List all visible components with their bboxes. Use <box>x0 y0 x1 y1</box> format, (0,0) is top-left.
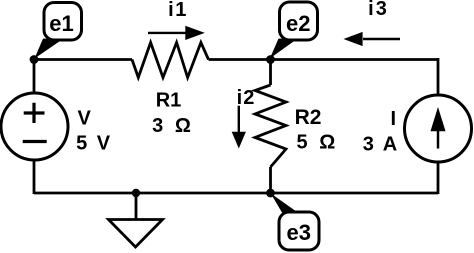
node e2 callout box <box>280 2 318 40</box>
node B dot (e2) <box>266 55 275 64</box>
arrow i1 <box>148 32 186 34</box>
node A dot (e1) <box>30 55 39 64</box>
wire left vertical top <box>33 58 36 93</box>
svg-text:V: V <box>78 107 92 129</box>
wire right vertical top <box>437 58 440 95</box>
svg-text:5 Ω: 5 Ω <box>297 132 339 154</box>
svg-text:R2: R2 <box>295 106 322 129</box>
svg-text:e3: e3 <box>286 220 310 245</box>
svg-text:I: I <box>391 108 397 130</box>
node e2 callout wedge <box>270 39 298 59</box>
svg-text:5 V: 5 V <box>76 133 112 155</box>
node e3 callout box <box>279 212 319 250</box>
arrow i3 <box>363 38 400 40</box>
svg-text:i3: i3 <box>368 0 389 20</box>
wire right vertical bottom <box>437 162 440 194</box>
voltage source V circle <box>1 93 68 160</box>
voltage source minus sign <box>23 140 47 143</box>
svg-text:e2: e2 <box>286 11 310 36</box>
wire R2 bottom lead <box>269 167 272 193</box>
current source arrow <box>437 128 440 149</box>
wire left vertical bottom <box>33 160 36 194</box>
wire bottom <box>34 192 438 195</box>
current source I circle <box>405 95 472 162</box>
resistor R2 <box>255 85 286 167</box>
node e3 callout wedge <box>271 193 299 213</box>
svg-text:i1: i1 <box>168 0 188 21</box>
svg-text:i2: i2 <box>237 87 256 109</box>
node C dot (e3) <box>266 189 275 198</box>
svg-text:e1: e1 <box>49 11 73 36</box>
wire R2 top lead <box>269 60 272 86</box>
ground <box>135 193 138 220</box>
wire top right segment <box>209 58 439 61</box>
wire top left segment <box>34 58 132 61</box>
node e1 callout wedge <box>35 39 64 59</box>
resistor R1 <box>132 43 209 78</box>
svg-text:R1: R1 <box>156 90 182 112</box>
svg-text:3 A: 3 A <box>363 134 399 156</box>
node ground dot <box>132 189 140 197</box>
arrow i2 <box>238 106 240 133</box>
svg-text:3 Ω: 3 Ω <box>152 115 194 137</box>
node e1 callout box <box>44 3 82 41</box>
voltage source plus sign <box>24 103 45 123</box>
